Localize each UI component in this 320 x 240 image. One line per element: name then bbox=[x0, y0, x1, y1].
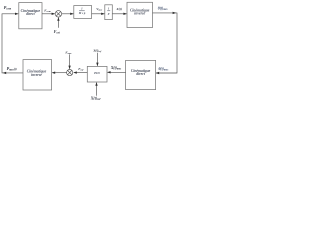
arrowhead into sum2 right bbox=[73, 71, 77, 73]
svg-text:X(t)ref: X(t)ref bbox=[90, 96, 102, 100]
wire sum1 to box C bbox=[62, 13, 74, 15]
svg-text:Pmes(t): Pmes(t) bbox=[7, 66, 17, 72]
svg-text:PID: PID bbox=[94, 71, 100, 75]
arrowhead down into sum2 bbox=[68, 66, 70, 70]
arrowhead into box A bbox=[15, 13, 19, 15]
summing junction 2 bbox=[67, 70, 73, 76]
arrowhead into box F bbox=[156, 72, 160, 74]
svg-text:Fcom: Fcom bbox=[44, 9, 51, 14]
arrowhead into box B right side bbox=[52, 72, 56, 74]
arrowhead into box E bbox=[123, 13, 127, 15]
wire box F to box G (PID) bbox=[107, 71, 125, 73]
stub into G top: X(t)ref bbox=[96, 53, 98, 66]
svg-text:inverse: inverse bbox=[31, 73, 42, 77]
svg-text:X(t): X(t) bbox=[115, 7, 121, 11]
wire A to sum1 bbox=[42, 13, 55, 15]
wire box E to right corner, down, into box F bbox=[153, 13, 178, 73]
box A: Cinematique direct bbox=[19, 3, 42, 29]
arrowhead into sum1 bbox=[52, 13, 56, 15]
svg-text:θ(t)mes: θ(t)mes bbox=[159, 67, 169, 72]
svg-text:θ(t)mes: θ(t)mes bbox=[158, 7, 168, 12]
stub into G bottom: X(t)ref bbox=[96, 83, 98, 96]
wire F_ext stub below sum1 bbox=[57, 17, 59, 27]
box D: 1/p bbox=[105, 5, 113, 20]
wire feedback loop left: B output to A input bbox=[2, 14, 23, 73]
arrowhead into box C bbox=[70, 13, 74, 15]
wire G to sum2 bbox=[74, 72, 87, 74]
box B: Cinematique inverse (bottom-left) bbox=[23, 60, 52, 90]
wire box D to box E bbox=[112, 13, 126, 15]
stub into sum2 top: F_mes bbox=[69, 54, 71, 68]
svg-text:Fmes: Fmes bbox=[65, 51, 71, 56]
box C: 1/(M.s+f) bbox=[74, 6, 92, 19]
arrowhead into box G right side bbox=[107, 71, 111, 73]
svg-text:direct: direct bbox=[136, 72, 146, 76]
arrowhead up into sum1 bbox=[57, 17, 59, 21]
arrowhead left on bottom feedback wire bbox=[3, 72, 7, 74]
svg-text:X(t)ref: X(t)ref bbox=[92, 48, 101, 53]
svg-text:inverse: inverse bbox=[134, 12, 145, 16]
box F: Cinematique direct (bottom) bbox=[126, 60, 156, 89]
svg-text:X(t)mes: X(t)mes bbox=[110, 66, 121, 71]
box G: PID bbox=[87, 66, 107, 82]
box E: Cinematique inverse bbox=[127, 2, 153, 27]
arrowhead into box D bbox=[101, 13, 105, 15]
wire box C to box D bbox=[92, 13, 105, 15]
arrowhead up into G bottom bbox=[95, 82, 97, 86]
arrowhead mid-wire pointing right near top corner bbox=[173, 12, 177, 14]
arrowhead down into G top bbox=[96, 63, 98, 67]
svg-text:M s p: M s p bbox=[78, 11, 86, 15]
svg-text:Vmes: Vmes bbox=[96, 7, 102, 12]
svg-text:direct: direct bbox=[26, 12, 36, 16]
summing junction 1 bbox=[55, 11, 62, 18]
wire sum2 to box B bbox=[52, 72, 66, 74]
